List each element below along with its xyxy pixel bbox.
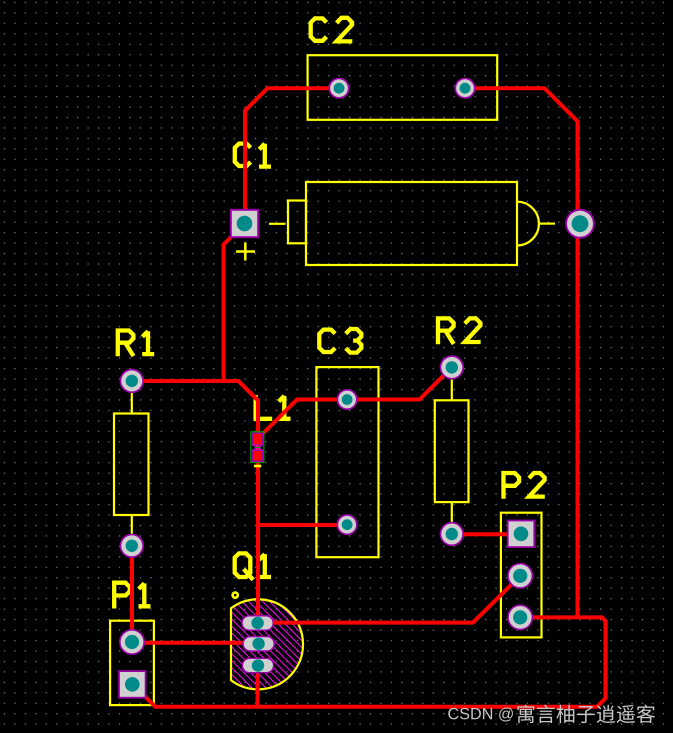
pad P1.2 square — [118, 670, 146, 698]
label L1 — [256, 395, 291, 419]
wire R1.2 to P1.1 — [130, 546, 134, 642]
wire C2.2 to battery pad to P2.3 vertical — [465, 88, 578, 617]
wire P1.1 to Q1.B — [132, 641, 259, 645]
label C2 — [311, 18, 353, 42]
capacitor C3 body — [316, 367, 378, 557]
wire R2.2 to P2.1 — [452, 532, 521, 536]
connector P2 body — [501, 513, 542, 638]
watermark CSDN — [448, 707, 513, 721]
L1 center cross — [255, 445, 261, 451]
L1 pad top — [253, 433, 263, 445]
wire Q1.C to bottom net — [256, 666, 260, 707]
wire P2.3 around bottom to P1.2 — [132, 617, 606, 706]
pad Q1.C — [242, 658, 275, 674]
resistor R2 body — [435, 400, 469, 502]
pad C3.2 — [337, 514, 358, 535]
pad R1.2 — [120, 534, 144, 558]
pad R2.1 — [440, 355, 464, 379]
wire Q1.A to P2.2 — [258, 576, 521, 623]
pad P2.3 — [507, 604, 533, 630]
wire C2.1 to C1.1 — [245, 88, 339, 223]
L1 pad bottom — [253, 450, 263, 461]
pad C1.1 square — [230, 209, 259, 238]
transistor Q1 hatched fill — [213, 599, 304, 690]
connector P1 body — [110, 621, 154, 705]
C1 left terminal bump — [288, 201, 306, 244]
label C1 — [235, 144, 271, 167]
R1 lead stubs — [131, 392, 133, 536]
pad R2.2 — [440, 522, 464, 546]
pad Q1.A — [241, 615, 274, 631]
pad C3.1 — [337, 389, 358, 410]
L1 minus mark — [254, 465, 261, 468]
wire R1.1 junction to L1/Q1.A — [132, 381, 258, 623]
label C3 — [319, 329, 361, 353]
pad P2.1 square — [507, 520, 535, 548]
capacitor C1 battery body — [306, 182, 517, 265]
L1 center X mark — [253, 445, 263, 451]
wire C1.1 to R1/L1 junction — [224, 224, 245, 382]
capacitor C2 body — [308, 55, 498, 120]
label R2 — [438, 318, 481, 344]
resistor R1 body — [114, 414, 149, 516]
wire C3.2 to L1 net — [258, 523, 347, 527]
label Q1 — [235, 553, 271, 579]
pad P1.1 — [119, 629, 145, 655]
pad P2.2 — [507, 563, 533, 589]
C1 right terminal arc — [517, 202, 539, 246]
Q1 pin-1 dot — [233, 593, 238, 598]
LED L1 body outline — [251, 432, 264, 463]
pad battery right — [565, 209, 595, 239]
pad C2.1 — [328, 78, 349, 99]
watermark CJK — [517, 705, 655, 724]
transistor Q1 outline — [231, 599, 303, 689]
C1 left lead stub — [269, 223, 286, 225]
label P1 — [114, 583, 150, 609]
pad C2.2 — [454, 78, 475, 99]
C1 plus polarity mark — [236, 242, 255, 260]
pad Q1.B — [242, 636, 275, 652]
label R1 — [118, 331, 154, 357]
label P2 — [504, 473, 545, 499]
R2 lead stubs — [451, 379, 453, 524]
C1 right lead stub — [539, 223, 555, 225]
wire L1.1 to C3.1 to R2.1 — [258, 367, 452, 438]
pad R1.1 — [120, 369, 144, 393]
